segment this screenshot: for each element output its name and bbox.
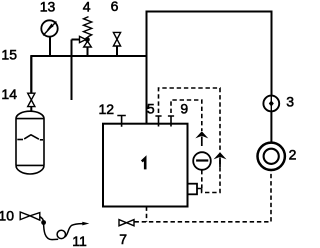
- svg-text:14: 14: [1, 86, 17, 102]
- svg-text:15: 15: [1, 47, 17, 63]
- svg-text:2: 2: [289, 147, 297, 163]
- svg-text:12: 12: [99, 101, 115, 117]
- svg-text:9: 9: [180, 100, 188, 116]
- svg-text:7: 7: [119, 231, 127, 247]
- svg-text:5: 5: [147, 101, 155, 117]
- svg-text:6: 6: [111, 0, 119, 14]
- svg-text:11: 11: [72, 233, 87, 248]
- svg-text:4: 4: [83, 0, 91, 15]
- svg-text:3: 3: [286, 93, 294, 109]
- svg-text:13: 13: [40, 0, 56, 15]
- svg-text:10: 10: [0, 208, 14, 224]
